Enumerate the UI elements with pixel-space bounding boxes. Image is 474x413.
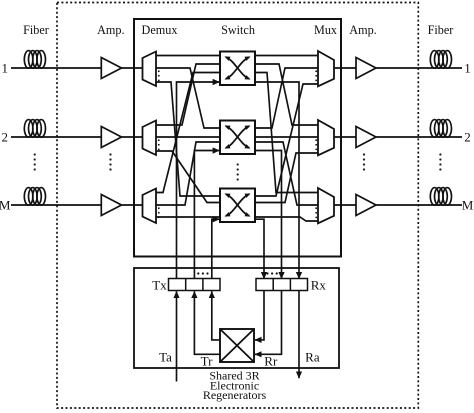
svg-text:Rr: Rr: [264, 354, 278, 369]
svg-text:Rx: Rx: [311, 278, 327, 293]
svg-text:Tr: Tr: [201, 354, 213, 369]
svg-text:Demux: Demux: [142, 23, 178, 37]
svg-text:1: 1: [1, 61, 8, 76]
svg-text:Tx: Tx: [152, 278, 167, 293]
svg-text:2: 2: [1, 130, 8, 145]
svg-text:Switch: Switch: [221, 23, 255, 37]
svg-text:Mux: Mux: [314, 23, 337, 37]
svg-text:Fiber: Fiber: [23, 23, 49, 37]
svg-text:M: M: [462, 198, 474, 213]
svg-text:1: 1: [464, 61, 471, 76]
svg-text:Amp.: Amp.: [97, 23, 124, 37]
svg-text:Amp.: Amp.: [349, 23, 376, 37]
svg-text:M: M: [0, 198, 11, 213]
svg-text:Ta: Ta: [159, 350, 172, 365]
svg-text:2: 2: [464, 130, 471, 145]
svg-text:Ra: Ra: [305, 350, 320, 365]
svg-text:Regenerators: Regenerators: [203, 388, 267, 402]
svg-text:Fiber: Fiber: [428, 23, 454, 37]
